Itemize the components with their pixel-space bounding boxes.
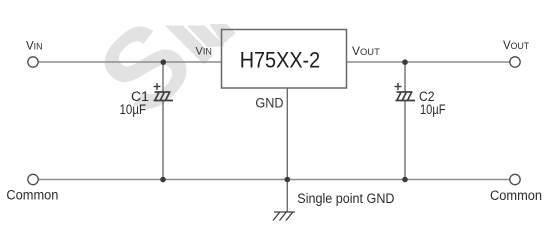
terminal common right — [510, 174, 520, 184]
terminal VOUT — [510, 57, 520, 67]
svg-text:Single point GND: Single point GND — [297, 191, 394, 206]
svg-text:VOUT: VOUT — [352, 44, 380, 58]
svg-text:Common: Common — [490, 188, 542, 203]
capacitor C1 — [154, 92, 174, 101]
svg-text:Common: Common — [6, 187, 58, 202]
wire common rail — [38, 179, 510, 181]
ground symbol (single point GND) — [273, 212, 295, 221]
svg-text:10µF: 10µF — [120, 102, 147, 117]
svg-text:10µF: 10µF — [420, 102, 446, 117]
terminal VIN — [28, 57, 38, 67]
capacitor C2 — [396, 92, 416, 101]
regulator IC U1 H75XX-2 — [222, 30, 347, 89]
wire output — [347, 61, 511, 63]
svg-text:VIN: VIN — [26, 41, 42, 53]
junction dot input/C1 — [161, 59, 167, 65]
C1 plus sign — [154, 83, 161, 90]
C2 plus sign — [395, 83, 402, 90]
terminal common left — [28, 174, 38, 184]
junction dot C1/rail — [160, 177, 166, 183]
junction dot C2/rail — [402, 177, 408, 183]
junction dot GND/rail — [285, 177, 291, 183]
wire input — [38, 61, 222, 63]
wire GND pin to single point ground — [286, 88, 288, 212]
junction dot output/C2 — [402, 59, 408, 65]
svg-text:H75XX-2: H75XX-2 — [240, 48, 321, 73]
wire C1 branch — [162, 62, 164, 92]
svg-text:GND: GND — [255, 95, 283, 110]
svg-text:S: S — [75, 0, 216, 138]
wire C2 branch — [404, 62, 406, 92]
svg-text:VIN: VIN — [196, 46, 212, 58]
watermark — [75, 0, 236, 138]
svg-text:VOUT: VOUT — [503, 40, 530, 52]
